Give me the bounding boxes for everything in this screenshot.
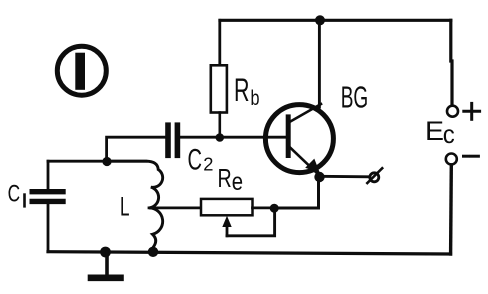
label Ec [425, 116, 455, 149]
capacitor C1 [32, 192, 63, 202]
wire Ec plus lead [451, 20, 452, 104]
wire Ec minus to bottom rail [449, 165, 453, 254]
wire left branch lower [47, 204, 50, 252]
svg-text:E: E [425, 116, 444, 146]
inductor L [110, 161, 163, 251]
label L [120, 192, 130, 222]
junction Rb lead / base wire [216, 133, 225, 142]
svg-text:R: R [218, 165, 232, 193]
label C1 [8, 181, 26, 208]
wire left branch upper [47, 161, 50, 189]
terminal Ec plus [447, 106, 458, 117]
potentiometer Re body [201, 199, 253, 215]
capacitor C2 [168, 125, 177, 155]
svg-text:BG: BG [341, 80, 369, 115]
resistor Rb [211, 65, 227, 112]
wire Re right lead [253, 206, 275, 209]
junction top rail to collector [315, 15, 325, 25]
label minus sign [464, 155, 479, 158]
svg-text:2: 2 [203, 154, 213, 175]
terminal Ec minus [446, 154, 457, 165]
wire wiper loop [227, 208, 275, 236]
label plus sign [464, 103, 480, 119]
svg-text:c: c [443, 119, 455, 149]
label Re [218, 165, 244, 196]
wire Re node to emitter [275, 177, 319, 208]
junction ground node [100, 247, 111, 258]
junction emitter node [314, 172, 324, 182]
label Rb [234, 72, 260, 110]
wire collector [318, 20, 321, 107]
wire L tap to Re [149, 206, 201, 209]
svg-text:R: R [234, 72, 250, 108]
wire C2 to base [181, 136, 287, 139]
transistor BG [265, 104, 333, 176]
ground [91, 252, 121, 278]
circled numeral 1 badge [57, 46, 106, 95]
svg-text:b: b [251, 87, 260, 110]
label BG [341, 80, 369, 115]
junction L bottom [148, 247, 158, 257]
svg-text:L: L [120, 192, 130, 222]
wire bottom rail [48, 252, 451, 254]
wire tank top rail [48, 160, 146, 163]
svg-text:C: C [8, 181, 21, 208]
label C2 [188, 144, 214, 177]
wire emitter to output terminal [320, 175, 370, 178]
wire Rb bottom lead [219, 113, 222, 138]
junction tank top node [102, 157, 111, 166]
wire Rb top lead [218, 20, 221, 65]
wire top supply rail [220, 19, 451, 22]
wire tank top node to C2 [107, 137, 165, 161]
junction Re / wiper node [270, 204, 279, 213]
output terminal (circle with slash) [367, 168, 382, 183]
svg-text:C: C [188, 144, 203, 177]
potentiometer Re wiper arrow [222, 216, 231, 236]
svg-text:e: e [232, 168, 243, 196]
